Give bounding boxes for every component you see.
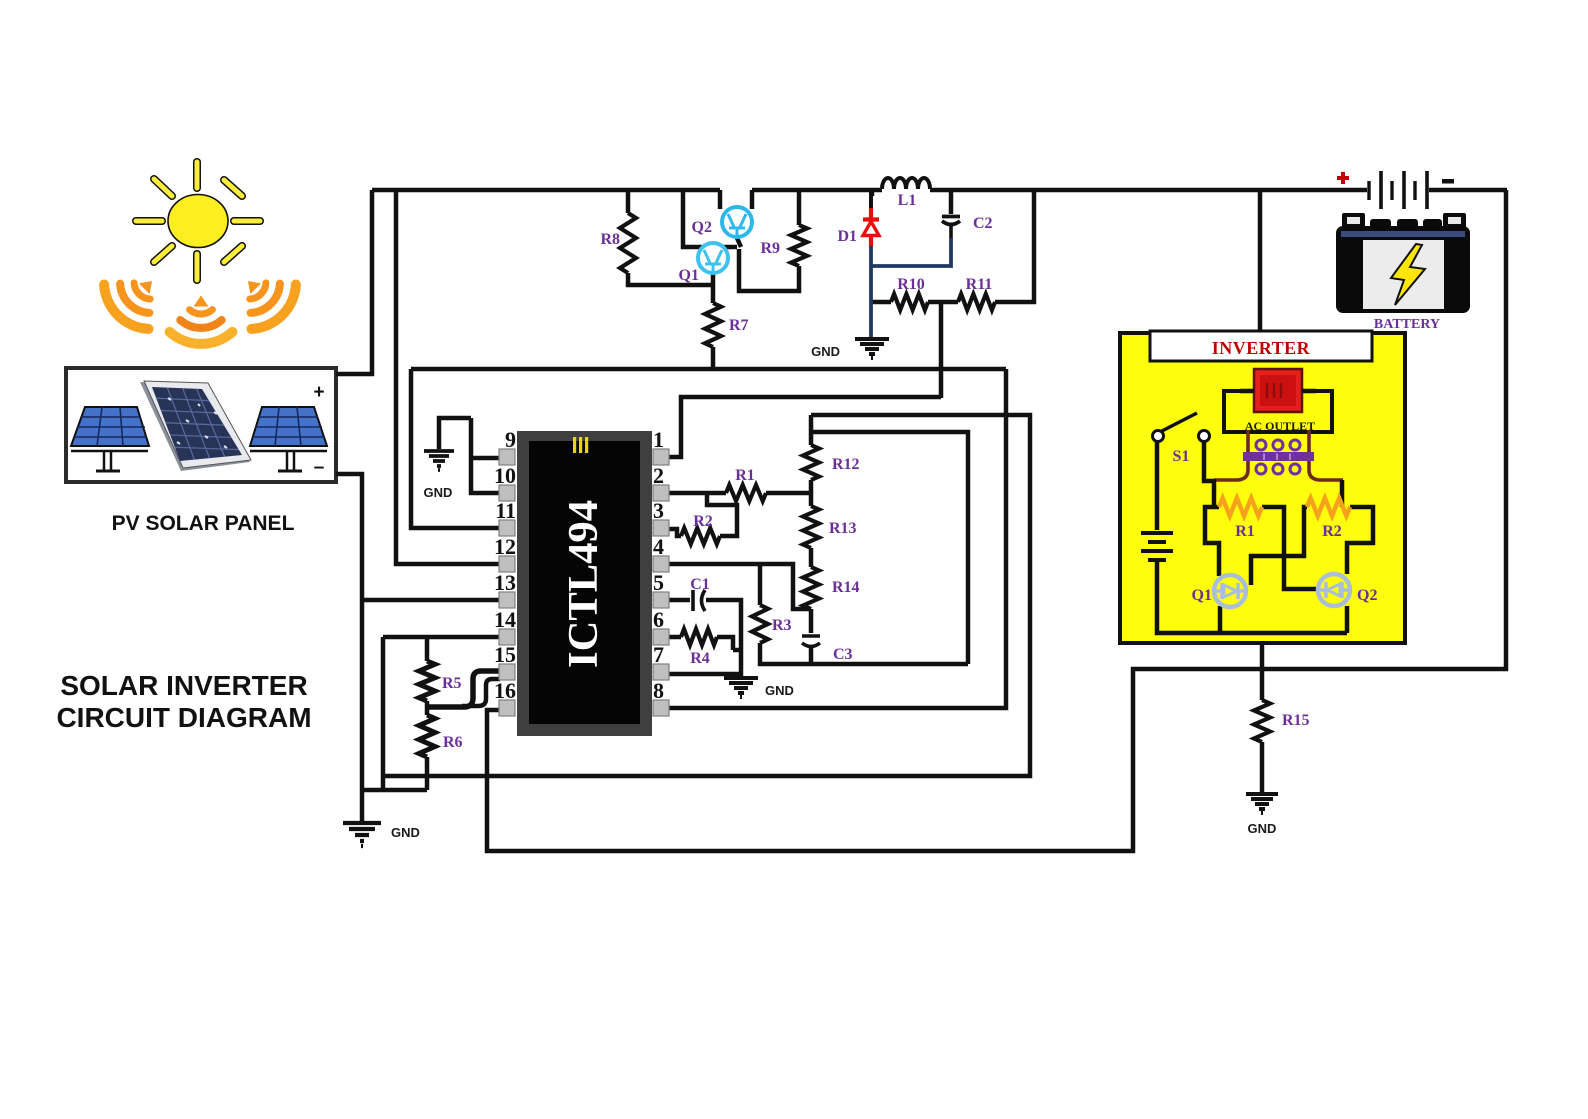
ground GND D1 [855, 339, 889, 358]
wire R3 leads [760, 564, 968, 664]
wire pin1 to R10-R11 junction [669, 302, 941, 457]
ground GND R15 [1246, 794, 1278, 813]
wire thick pin15 [427, 671, 500, 707]
svg-text:R14: R14 [832, 579, 860, 596]
wire R9 top [797, 190, 802, 225]
svg-text:GND: GND [424, 485, 453, 500]
sun icon [136, 162, 260, 280]
wire pin14 [383, 635, 500, 640]
svg-text:GND: GND [391, 825, 420, 840]
svg-text:AC OUTLET: AC OUTLET [1245, 419, 1315, 433]
resistor R2 [681, 528, 720, 544]
svg-text:GND: GND [765, 683, 794, 698]
wire R12 top net [383, 415, 1030, 790]
svg-text:Q2: Q2 [1357, 587, 1377, 604]
resistor R6 [419, 715, 435, 757]
wire R13 R14 link [809, 548, 814, 567]
svg-text:6: 6 [653, 607, 664, 632]
wire pin4 to R14 bottom [669, 564, 811, 633]
wire Q2 emitter [1345, 606, 1350, 633]
wire S1 branch [1157, 442, 1347, 633]
switch S1 [1153, 413, 1210, 442]
wire outlet stubs [1240, 389, 1316, 394]
wire D1 top lead [870, 190, 875, 196]
wire panel+ to rail [336, 190, 372, 374]
svg-text:R2: R2 [693, 513, 713, 530]
svg-text:R9: R9 [760, 240, 780, 257]
wire R5 R6 leads [425, 637, 430, 790]
svg-text:R12: R12 [832, 456, 860, 473]
resistor R14 [803, 567, 819, 609]
svg-text:15: 15 [494, 642, 516, 667]
svg-text:INVERTER: INVERTER [1212, 338, 1311, 358]
wire Q2 rail stubs [720, 190, 752, 209]
svg-text:R1: R1 [735, 467, 755, 484]
capacitor C1 [693, 590, 705, 611]
svg-text:8: 8 [653, 678, 664, 703]
svg-text:13: 13 [494, 570, 516, 595]
svg-text:–: – [314, 457, 325, 478]
wire pin5 C1 [669, 600, 741, 676]
wire top +V rail [372, 188, 1507, 193]
capacitor C3 [802, 636, 820, 647]
wire rail to pin12 [396, 190, 500, 564]
solar radiation arcs [96, 259, 305, 344]
svg-text:Q1: Q1 [1192, 587, 1212, 604]
svg-text:GND: GND [1248, 821, 1277, 836]
svg-text:14: 14 [494, 607, 516, 632]
wire R2 left to Q1 base [1251, 507, 1307, 585]
svg-text:PV SOLAR PANEL: PV SOLAR PANEL [112, 512, 295, 535]
inverter battery stack [1141, 533, 1173, 560]
resistor R1 [726, 485, 766, 501]
resistor R2 inverter [1307, 498, 1350, 516]
svg-text:R5: R5 [442, 675, 462, 692]
wire R2 right to Q2 [1342, 480, 1373, 574]
resistor R8 [620, 213, 636, 273]
wire R8 branch [628, 190, 713, 285]
svg-text:GND: GND [811, 344, 840, 359]
svg-text:4: 4 [653, 534, 664, 559]
svg-text:R3: R3 [772, 617, 792, 634]
svg-text:R10: R10 [897, 276, 925, 293]
resistor R9 [791, 225, 807, 266]
wire R15 bottom lead [1260, 742, 1265, 793]
label battery minus [1442, 179, 1454, 184]
svg-text:9: 9 [505, 427, 516, 452]
AC outlet frame [1224, 391, 1332, 432]
svg-text:2: 2 [653, 463, 664, 488]
wire pin2 to R1 [669, 480, 811, 506]
PV panel tilted module [140, 381, 251, 471]
transistor Q1 inverter [1214, 575, 1246, 607]
svg-text:SOLAR INVERTER: SOLAR INVERTER [60, 670, 307, 701]
wire R10 R11 leads [872, 190, 1034, 302]
inverter internal wires [1157, 391, 1373, 633]
svg-text:R2: R2 [1322, 523, 1342, 540]
wire Q1 emitter to R7 [711, 273, 716, 369]
PV panel box with +/- terminals [66, 368, 336, 482]
inverter wire from rail [1258, 190, 1263, 331]
resistor R12 [803, 445, 819, 480]
svg-text:C2: C2 [973, 215, 993, 232]
pin numbers left [494, 427, 516, 703]
svg-text:ICTL494: ICTL494 [561, 500, 607, 668]
wire R7 bottom bus to pin11 and pin8 [411, 369, 1006, 708]
svg-text:5: 5 [653, 570, 664, 595]
resistor R3 [752, 605, 768, 643]
resistor R13 [803, 506, 819, 548]
inductor L1 [882, 178, 930, 189]
transistor Q2 [722, 207, 752, 237]
capacitor C2 [942, 217, 960, 239]
svg-text:R13: R13 [829, 520, 857, 537]
pin numbers right [653, 427, 664, 703]
resistor R15 [1254, 700, 1270, 742]
resistor R5 [419, 661, 435, 701]
PV panel right array [250, 407, 327, 471]
resistor R1 inverter [1219, 498, 1262, 516]
svg-text:Q1: Q1 [679, 267, 699, 284]
INVERTER box [1120, 331, 1405, 643]
transformer T1 [1214, 430, 1343, 480]
IC pads left [499, 449, 515, 716]
wire R1 left to Q1 [1205, 507, 1219, 576]
svg-text:3: 3 [653, 498, 664, 523]
svg-text:R11: R11 [966, 276, 993, 293]
PV panel left array [71, 407, 149, 471]
svg-text:Q2: Q2 [692, 219, 712, 236]
resistor R4 [681, 629, 717, 645]
wire R1 right to Q2 base [1262, 507, 1318, 589]
svg-text:11: 11 [495, 498, 516, 523]
svg-text:D1: D1 [837, 228, 857, 245]
wire pin16 to battery minus bus [487, 190, 1506, 851]
wire pin3 R2 jog [669, 493, 737, 536]
svg-text:L1: L1 [898, 192, 917, 209]
svg-text:10: 10 [494, 463, 516, 488]
IC U1 TL494 body [517, 431, 652, 736]
svg-text:1: 1 [653, 427, 664, 452]
wire panel- / ground bus [336, 474, 500, 822]
svg-text:R8: R8 [600, 231, 620, 248]
wire Q1 base net [683, 190, 799, 291]
svg-text:7: 7 [653, 642, 664, 667]
svg-text:BATTERY: BATTERY [1374, 317, 1440, 332]
ground GND pin9 [424, 451, 454, 470]
resistor R10 [891, 294, 928, 310]
svg-text:S1: S1 [1173, 448, 1190, 465]
svg-text:16: 16 [494, 678, 516, 703]
IC pads right [653, 449, 669, 716]
svg-text:R6: R6 [443, 734, 463, 751]
svg-text:R4: R4 [690, 650, 710, 667]
svg-text:12: 12 [494, 534, 516, 559]
ground GND left [343, 823, 381, 846]
ground GND pin7 [724, 678, 758, 697]
battery cell symbol [1369, 171, 1427, 209]
svg-text:C3: C3 [833, 646, 853, 663]
wire pin6 R4 [669, 637, 733, 650]
wire pin7 [669, 672, 741, 677]
svg-text:+: + [313, 382, 324, 403]
transistor Q2 inverter [1318, 574, 1350, 606]
wire Q1 emitter [1218, 606, 1223, 633]
svg-text:R1: R1 [1235, 523, 1255, 540]
transistor Q1 [698, 243, 728, 273]
IC pin1 marks [573, 437, 588, 453]
AC outlet [1254, 369, 1302, 412]
wire C2 top lead [949, 190, 954, 214]
svg-text:C1: C1 [690, 576, 710, 593]
wire pin9 pin10 gnd [439, 418, 500, 493]
svg-text:CIRCUIT DIAGRAM: CIRCUIT DIAGRAM [56, 702, 311, 733]
title SOLAR INVERTER CIRCUIT DIAGRAM [56, 670, 311, 733]
diode D1 [863, 190, 951, 338]
label battery plus [1337, 172, 1349, 184]
resistor R7 [705, 303, 721, 347]
svg-text:R7: R7 [729, 317, 749, 334]
battery icon [1336, 213, 1470, 313]
resistor R11 [958, 294, 995, 310]
wire S1 pole to R1 feed [1204, 442, 1214, 507]
svg-text:R15: R15 [1282, 712, 1310, 729]
